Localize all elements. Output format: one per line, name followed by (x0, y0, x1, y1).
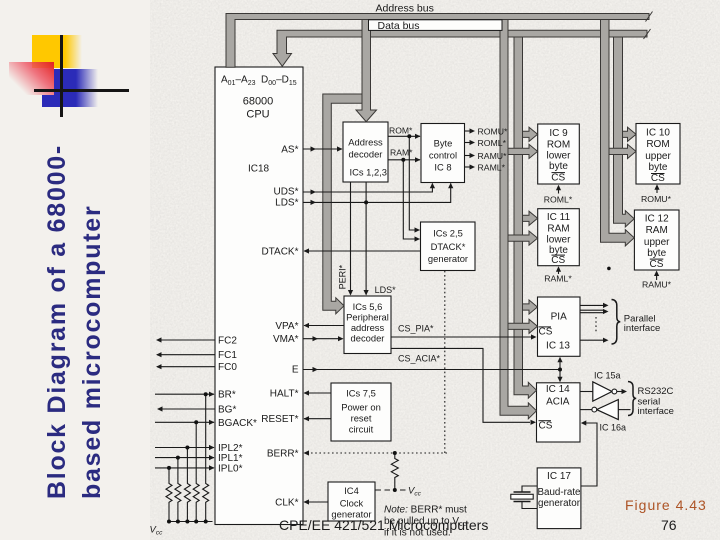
svg-text:Data bus: Data bus (378, 20, 420, 32)
arrowhead BGACK* into CPU (209, 420, 215, 425)
wire FC2 (157, 339, 215, 341)
data bus horizontal with drop and hollow arrow into CPU (273, 30, 647, 66)
svg-text:IPL0*: IPL0* (218, 463, 243, 474)
svg-text:RAM: RAM (547, 224, 569, 235)
arrowhead PIA output 3 (603, 338, 609, 343)
svg-text:DTACK*: DTACK* (261, 246, 298, 257)
svg-text:ICs 5,6: ICs 5,6 (353, 301, 383, 312)
junction dot E at PIA-ACIA link (558, 368, 562, 372)
svg-text:BERR*: BERR* (267, 448, 299, 459)
dotted wire PIA parallel middle (595, 317, 597, 334)
block arrow D1 into IC 11 (523, 211, 538, 225)
arrowhead FC2 (156, 337, 162, 342)
buffer IC 16a triangle (597, 400, 619, 420)
arrowhead RAML* up to IC 11 (556, 266, 561, 272)
ROM upper byte IC 10 box (636, 124, 680, 185)
wire CS_PIA* to PIA (391, 336, 531, 338)
wire BG* (158, 408, 215, 410)
overline CS IC 10 (651, 173, 665, 175)
wire VPA* peripheral decoder to CPU (304, 325, 344, 327)
clock generator IC4 box (328, 482, 375, 521)
svg-text:IC18: IC18 (248, 164, 270, 175)
junction dot rail 3 (185, 520, 189, 524)
wire FC1 (157, 354, 215, 356)
inverter bubble IC 15a (612, 389, 617, 394)
svg-text:DTACK*: DTACK* (431, 241, 466, 252)
logo blue square (54, 69, 76, 107)
wire HALT* reset circuit to CPU (304, 392, 331, 394)
svg-text:BR*: BR* (218, 390, 236, 401)
wire ROML* arrow below IC 9 (558, 187, 560, 194)
svg-text:IC 11: IC 11 (547, 212, 571, 223)
vertical address bus A2 ending in block arrow into IC 12 (601, 20, 635, 247)
svg-text:lower: lower (547, 151, 572, 162)
arrowhead AS* into decoder (337, 146, 343, 151)
ROM lower byte IC 9 box (538, 124, 580, 184)
svg-text:IC 10: IC 10 (646, 127, 670, 138)
svg-text:BG*: BG* (218, 405, 236, 416)
arrowhead RAMU* output (470, 153, 476, 158)
arrowhead link up into PIA (557, 357, 562, 363)
svg-text:ROM*: ROM* (389, 126, 413, 136)
svg-text:decoder: decoder (349, 148, 383, 159)
wire ACIA to IC 15a (580, 391, 593, 393)
svg-text:ROML*: ROML* (544, 194, 573, 204)
svg-text:byte: byte (649, 162, 668, 173)
junction dot BGACK* pull-up (194, 420, 198, 424)
arrowhead UDS* mid (311, 189, 317, 194)
scan noise overlay (150, 0, 720, 540)
logo yellow fade (65, 35, 82, 68)
svg-text:IC 8: IC 8 (434, 162, 451, 173)
junction dot rail 4 (194, 520, 198, 524)
svg-text:CS: CS (551, 255, 565, 266)
svg-text:AS*: AS* (281, 144, 298, 155)
arrowhead FC0 (156, 364, 162, 369)
dash marks at BERR* Vcc connection (376, 489, 406, 491)
wire crystal bottom (522, 502, 537, 509)
svg-text:ICs 7,5: ICs 7,5 (346, 387, 376, 398)
byte control IC 8 box (421, 124, 465, 183)
svg-text:reset: reset (351, 412, 372, 423)
svg-text:68000: 68000 (243, 95, 274, 107)
crystal plates (514, 492, 531, 502)
svg-text:Byte: Byte (434, 138, 453, 149)
junction dot IPL2* pull-up (185, 446, 189, 450)
arrowhead E mid (313, 367, 319, 372)
wire Vcc rail under pull-up resistors (169, 521, 213, 523)
arrowhead PIA output 1 (603, 303, 609, 308)
slide title (40, 119, 110, 499)
svg-text:ICs 1,2,3: ICs 1,2,3 (350, 167, 388, 178)
address bus horizontal with left drop to CPU (226, 14, 649, 68)
vertical data bus D2 ending in block arrow into IC 12 (614, 37, 635, 227)
wire VMA* CPU to peripheral decoder (303, 338, 343, 340)
pull-up resistor on BERR* (391, 453, 398, 490)
logo red square (9, 62, 54, 95)
svg-text:CS: CS (539, 420, 553, 431)
wire FC0 (157, 366, 215, 368)
logo yellow square (32, 35, 65, 68)
pull-up resistor on BR* (203, 394, 209, 521)
svg-text:ROM: ROM (646, 139, 669, 150)
stray dot near IC 12 (607, 267, 611, 271)
svg-text:CS: CS (651, 173, 665, 184)
wire RAM* branch to DTACK generator (403, 160, 419, 239)
DTACK generator ICs 2,5 box (421, 222, 476, 271)
wire RESET* reset circuit to CPU (304, 418, 331, 420)
wire AS* CPU to address decoder (303, 148, 342, 150)
svg-text:PIA: PIA (551, 312, 567, 323)
pull-up resistor on IPL0* (166, 468, 172, 522)
wire crystal top (522, 486, 537, 492)
svg-text:upper: upper (644, 237, 670, 248)
CPU IC18 box (215, 67, 303, 525)
arrowhead RAM* into byte control (415, 157, 421, 162)
svg-text:RAML*: RAML* (478, 162, 506, 172)
block arrow A2 into IC 10 (609, 144, 636, 158)
wire E CPU to PIA-ACIA junction (303, 369, 560, 371)
wire IPL1* (155, 457, 214, 459)
pull-up resistor on IPL1* (175, 458, 181, 522)
svg-text:CLK*: CLK* (275, 497, 298, 508)
wire LDS* branch to peripheral decoder (365, 183, 367, 295)
wire CS_ACIA* to ACIA (391, 348, 530, 422)
arrowhead ROML* output (470, 140, 476, 145)
page number (661, 517, 677, 533)
arrowhead LDS* mid (311, 200, 317, 205)
arrowhead LDS* down into peripheral decoder (364, 290, 369, 296)
svg-text:FC0: FC0 (218, 362, 237, 373)
arrowhead RAM* branch into DTACK generator (415, 236, 421, 241)
wire PIA parallel output 3 (580, 339, 603, 341)
logo blue fade (76, 69, 98, 107)
RAM upper byte IC 12 box (634, 210, 679, 270)
svg-text:VMA*: VMA* (273, 334, 299, 345)
arrowhead BERR* into CPU (304, 450, 310, 455)
wire CLK* clock generator to CPU (304, 501, 328, 503)
logo cross vertical line (60, 35, 63, 118)
address bus drop with hollow arrow into address decoder (356, 20, 377, 122)
wire IPL0* (155, 467, 214, 469)
buffer IC 15a triangle (593, 382, 612, 401)
wire PIA parallel output 1 (580, 304, 603, 306)
address bus end break mark (646, 12, 653, 22)
arrowhead BR* into CPU (209, 392, 215, 397)
wire IPL2* (155, 447, 214, 449)
wire BGACK* (155, 421, 214, 423)
wire LDS* CPU to byte control bottom (303, 184, 451, 203)
dotted wire DTACK generator to BERR* (444, 271, 446, 453)
svg-text:BGACK*: BGACK* (218, 418, 257, 429)
overline CS IC 9 (552, 172, 566, 174)
svg-text:CS: CS (650, 259, 664, 270)
svg-text:FC2: FC2 (218, 335, 237, 346)
junction dot rail 5 (204, 520, 208, 524)
vertical address bus A1 ending in block arrow into ACIA (500, 20, 537, 419)
svg-text:RESET*: RESET* (261, 414, 298, 425)
svg-text:circuit: circuit (349, 423, 374, 434)
logo cross horizontal line (34, 89, 129, 92)
wire ROMU* byte control output (465, 130, 470, 132)
vertical data bus D1 ending in block arrow into ACIA (514, 37, 537, 398)
junction dot BERR* resistor bottom (393, 488, 397, 492)
arrowhead VMA* mid (313, 336, 319, 341)
arrowhead FC1 (156, 352, 162, 357)
brace RS232C (628, 382, 636, 416)
arrowhead link down into ACIA (557, 377, 562, 383)
junction dot rail 1 (167, 520, 171, 524)
svg-text:LDS*: LDS* (275, 198, 298, 209)
svg-text:Baud-rate: Baud-rate (537, 487, 581, 498)
wire RAML* arrow below IC 11 (558, 268, 560, 274)
wire ROML* byte control output (465, 142, 470, 144)
arrowhead ROML* up to IC 9 (556, 185, 561, 191)
svg-text:VPA*: VPA* (275, 321, 298, 332)
arrowhead RAML* output (470, 164, 476, 169)
data bus label box (369, 20, 503, 31)
svg-text:Address bus: Address bus (376, 3, 434, 15)
junction dot LDS* (364, 200, 368, 204)
svg-text:E: E (292, 365, 299, 376)
svg-text:IC 16a: IC 16a (600, 423, 627, 433)
power-on reset ICs 7,5 box (331, 383, 391, 441)
svg-text:ROMU*: ROMU* (478, 126, 509, 136)
PIA IC 13 box (538, 297, 581, 356)
arrowhead ROM* into byte control (415, 134, 421, 139)
svg-text:HALT*: HALT* (270, 388, 299, 399)
arrowhead RAMU* up to IC 12 (654, 271, 659, 277)
wire ROM* branch to DTACK generator (409, 136, 419, 230)
dotted wire BERR* to CPU (304, 452, 447, 454)
svg-text:FC1: FC1 (218, 350, 237, 361)
block arrow A1 into IC 9 (508, 144, 538, 158)
svg-text:Peripheral: Peripheral (346, 311, 389, 322)
footer text (279, 517, 488, 533)
svg-text:byte: byte (549, 161, 568, 172)
wire PERI* decoder to peripheral decoder (350, 183, 352, 295)
svg-text:decoder: decoder (351, 332, 385, 343)
ACIA IC 14 box (537, 383, 581, 442)
arrowhead HALT* into CPU (304, 390, 310, 395)
svg-text:control: control (429, 150, 457, 161)
arrowhead DTACK* into CPU (304, 248, 310, 253)
svg-text:UDS*: UDS* (273, 187, 298, 198)
baud-rate generator IC 17 box (537, 468, 581, 529)
svg-text:RAM: RAM (646, 225, 668, 236)
svg-text:interface: interface (624, 323, 660, 334)
svg-text:Power on: Power on (341, 401, 381, 412)
svg-text:byte: byte (647, 248, 666, 259)
overline CS IC 12 (650, 258, 664, 260)
RAM lower byte IC 11 box (538, 209, 580, 266)
wire RAM* decoder to byte control (388, 159, 420, 161)
svg-text:ROML*: ROML* (478, 138, 507, 148)
svg-text:RAM*: RAM* (390, 147, 413, 157)
wire ACIA to IC 16a circle (580, 409, 592, 411)
svg-text:IC 12: IC 12 (645, 214, 669, 225)
arrowhead BG* (157, 406, 163, 411)
figure caption (625, 497, 707, 513)
svg-text:ICs 2,5: ICs 2,5 (433, 228, 463, 239)
arrowhead AS* mid (311, 146, 317, 151)
svg-text:upper: upper (645, 151, 671, 162)
svg-text:ACIA: ACIA (546, 396, 570, 407)
inverter bubble IC 16a (592, 407, 597, 412)
junction dot rail 2 (176, 520, 180, 524)
arrowhead ROMU* up to IC 10 (654, 184, 659, 190)
arrowhead PIA output 2 (603, 309, 609, 314)
svg-text:interface: interface (638, 406, 674, 417)
wire BR* (155, 393, 214, 395)
overline CS ACIA (539, 420, 552, 422)
arrowhead VMA* into peripheral decoder (338, 336, 344, 341)
wire PIA to ACIA vertical link (559, 362, 561, 379)
arrowhead ROM* branch into DTACK generator (415, 227, 421, 232)
block arrow D1 into PIA (523, 300, 538, 314)
wire IC 15a output (617, 391, 622, 393)
svg-text:IC 9: IC 9 (549, 128, 568, 139)
brace parallel interface (612, 300, 621, 345)
junction dot RAM* (401, 158, 405, 162)
wire DTACK* generator to CPU (304, 250, 421, 252)
wire IC 16a input from right (618, 409, 630, 411)
junction dot BR* pull-up (204, 392, 208, 396)
svg-text:CS: CS (539, 327, 553, 338)
arrowhead ROMU* output (470, 128, 476, 133)
junction dot BERR* resistor top (393, 451, 397, 455)
arrowhead baud-rate wire into ACIA (581, 420, 587, 425)
crystal body (511, 494, 533, 499)
svg-text:CPU: CPU (246, 109, 269, 121)
arrowhead UDS* up into byte control (430, 183, 435, 189)
svg-text:RAMU*: RAMU* (642, 280, 672, 290)
address decoder ICs 1,2,3 box (343, 122, 388, 182)
svg-text:IC 17: IC 17 (547, 471, 571, 482)
address bus branch down to peripheral decoder with block arrow (323, 94, 362, 314)
arrowhead IPL2* into CPU (209, 445, 215, 450)
arrowhead IC 15a output (622, 389, 628, 394)
svg-text:CS_ACIA*: CS_ACIA* (398, 353, 441, 363)
svg-text:ROM: ROM (547, 139, 570, 150)
junction dot IPL1* pull-up (176, 456, 180, 460)
pull-up resistor on BGACK* (193, 422, 199, 521)
peripheral address decoder ICs 5,6 box (344, 296, 391, 354)
svg-text:PERI*: PERI* (338, 264, 348, 289)
block arrow D1 into IC 9 (523, 127, 538, 141)
wire RAML* byte control output (465, 166, 470, 168)
svg-text:Address: Address (348, 136, 383, 147)
svg-text:LDS*: LDS* (375, 285, 397, 295)
arrowhead LDS* up into byte control (448, 183, 453, 189)
block arrow A1 into PIA (508, 319, 537, 333)
svg-text:CS_PIA*: CS_PIA* (398, 324, 434, 334)
svg-text:RAML*: RAML* (544, 274, 572, 284)
overline CS PIA (539, 326, 552, 328)
arrowhead CS_PIA* into PIA (531, 334, 537, 339)
svg-text:CS: CS (551, 172, 565, 183)
svg-text:Note: BERR* must: Note: BERR* must (384, 504, 467, 515)
arrowhead IPL0* into CPU (209, 465, 215, 470)
svg-text:RAMU*: RAMU* (478, 151, 508, 161)
arrowhead CS_ACIA* into ACIA (531, 420, 537, 425)
svg-text:IC4: IC4 (344, 485, 359, 496)
svg-text:Clock: Clock (340, 497, 364, 508)
svg-text:address: address (351, 322, 385, 333)
svg-text:IC 14: IC 14 (546, 384, 570, 395)
block arrow A1 into IC 11 (508, 231, 538, 245)
junction dot ROM* (407, 134, 411, 138)
overline CS IC 11 (552, 254, 566, 256)
junction dot IPL0* pull-up (167, 466, 171, 470)
arrowhead VPA* into CPU (304, 323, 310, 328)
svg-text:ROMU*: ROMU* (641, 194, 672, 204)
arrowhead CLK* into CPU (304, 499, 310, 504)
wire baud-rate generator to ACIA (581, 423, 597, 486)
arrowhead IPL1* into CPU (209, 455, 215, 460)
svg-text:generator: generator (428, 253, 468, 264)
wire ROMU* arrow below IC 10 (656, 186, 658, 193)
svg-text:IC 13: IC 13 (546, 340, 570, 351)
svg-text:IC 15a: IC 15a (594, 371, 621, 381)
pull-up resistor on IPL2* (184, 448, 190, 522)
wire UDS* CPU to byte control bottom (303, 184, 432, 193)
wire PIA parallel output 2 double line (580, 310, 603, 313)
wire RAMU* byte control output (465, 155, 470, 157)
logo blue small block (42, 95, 54, 107)
svg-text:generator: generator (538, 498, 581, 509)
wire ROM* decoder to byte control (388, 135, 420, 137)
data bus end break mark (644, 29, 651, 39)
wire RAMU* arrow below IC 12 (656, 273, 658, 281)
arrowhead PERI* down into peripheral decoder (348, 290, 353, 296)
block arrow D2 into IC 10 (623, 127, 637, 141)
arrowhead RESET* into CPU (304, 416, 310, 421)
